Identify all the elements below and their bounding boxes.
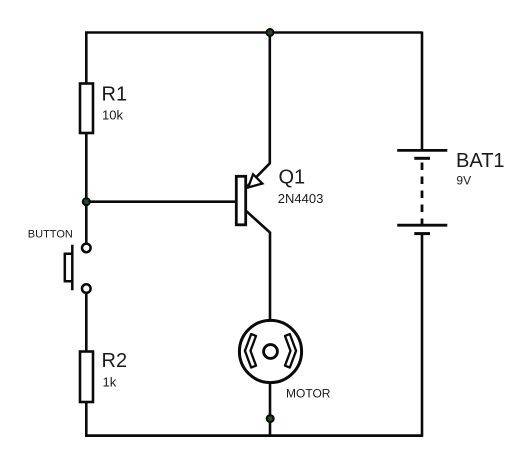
transistor Q1 base bar — [236, 176, 245, 225]
wire base — [86, 200, 236, 203]
battery BAT1 plate 1 short — [414, 157, 430, 160]
battery BAT1 plate 1 long — [397, 149, 447, 152]
svg-text:MOTOR: MOTOR — [286, 387, 331, 401]
wire motor to bottom rail — [269, 383, 272, 437]
wire left rail button to R2 — [85, 294, 88, 353]
motor MOTOR rotor — [264, 345, 278, 359]
node bottom junction — [267, 415, 274, 422]
svg-text:1k: 1k — [103, 375, 117, 390]
svg-text:BAT1: BAT1 — [456, 150, 505, 172]
svg-text:BUTTON: BUTTON — [28, 229, 73, 241]
motor MOTOR left brush — [245, 334, 256, 367]
wire left rail lower — [85, 402, 88, 437]
svg-text:Q1: Q1 — [279, 167, 306, 189]
svg-text:2N4403: 2N4403 — [278, 191, 324, 206]
wire right rail upper — [421, 32, 424, 151]
wire left rail R1 to button — [85, 133, 88, 243]
resistor R1 — [80, 84, 93, 134]
resistor R2 — [80, 352, 93, 403]
wire collector to motor — [246, 211, 270, 321]
wire left rail upper — [85, 32, 88, 85]
svg-text:R1: R1 — [102, 84, 128, 106]
svg-text:R2: R2 — [102, 350, 128, 372]
node top junction — [267, 29, 274, 36]
wire bottom rail — [85, 434, 422, 437]
pushbutton BUTTON actuator — [65, 245, 73, 290]
wire right rail lower — [421, 234, 424, 437]
motor MOTOR body — [239, 320, 301, 382]
battery BAT1 plate 2 long — [397, 224, 447, 227]
battery BAT1 plate 2 short — [414, 232, 430, 235]
svg-text:10k: 10k — [102, 107, 123, 122]
transistor Q1 emitter arrow — [248, 174, 262, 187]
wire emitter to top rail — [246, 32, 269, 188]
pushbutton BUTTON terminal pin 1 — [82, 244, 91, 253]
svg-text:9V: 9V — [456, 173, 471, 187]
pushbutton BUTTON terminal pin 2 — [82, 284, 91, 293]
motor MOTOR right brush — [285, 334, 296, 367]
battery BAT1 dashed link — [421, 163, 424, 225]
node base junction — [83, 198, 90, 205]
wire top rail — [85, 31, 422, 34]
